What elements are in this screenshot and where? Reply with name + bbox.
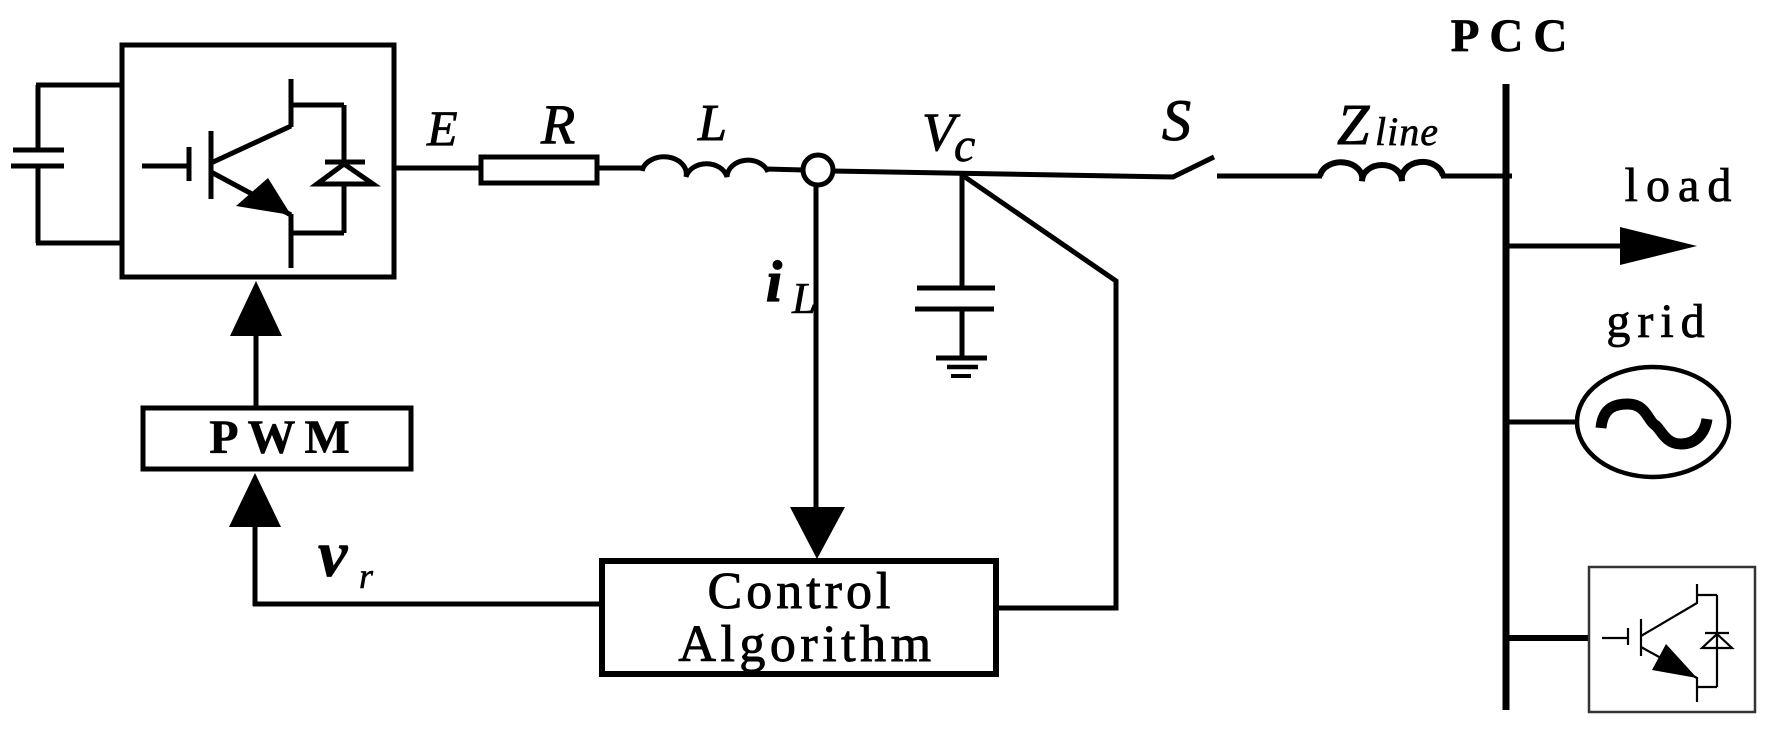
svg-text:Algorithm: Algorithm [678,616,935,673]
control algorithm box [602,561,996,674]
svg-text:S: S [1162,88,1191,153]
wire E [394,166,483,171]
wire DC bus bottom [36,241,122,246]
svg-text:c: c [954,119,975,172]
arrow PWM to inverter [254,335,259,408]
svg-text:PCC: PCC [1451,10,1578,62]
svg-text:grid: grid [1606,295,1711,348]
svg-text:Control: Control [708,563,895,620]
node n1 [803,155,833,185]
transistor Q1 emitter arrow [236,178,291,215]
resistor R [481,157,597,183]
wire feedback Vc to control algorithm [962,175,1116,608]
arrow iL [814,185,819,508]
wire Zline to PCC [1441,174,1512,179]
diode D2 [1702,633,1732,648]
wire L to node [766,169,804,170]
svg-text:L: L [791,274,816,323]
wire switch to Zline [1217,174,1322,179]
svg-text:Z: Z [1337,92,1370,157]
wire R to L [597,166,643,171]
PWM box [143,408,411,469]
inductor Zline [1320,162,1443,181]
transistor Q1 IGBT [142,79,344,268]
capacitor Cdc (DC bus) [11,85,64,243]
svg-text:E: E [426,100,458,156]
ground [936,358,987,376]
inductor L [642,157,768,177]
svg-text:load: load [1625,159,1740,212]
grid source [1577,367,1729,477]
transistor Q2 emitter arrow [1652,644,1697,678]
svg-text:R: R [540,94,575,156]
svg-text:L: L [697,95,727,152]
inverter box U1 [122,45,394,277]
svg-text:i: i [766,249,782,314]
converter box U2 [1589,567,1755,712]
wire vr [253,602,602,607]
capacitor C [915,174,995,358]
diode D1 [317,105,373,233]
arrow vr to PWM [253,526,258,606]
svg-text:line: line [1375,109,1439,154]
switch S [1173,157,1214,177]
svg-text:v: v [318,518,348,591]
wire DC bus top [36,83,122,88]
wire converter branch [1506,635,1590,641]
wire node to switch [832,171,1174,177]
PCC bus [1503,84,1510,710]
svg-text:PWM: PWM [209,411,359,464]
wire grid branch [1506,420,1580,425]
transistor Q2 IGBT [1602,584,1717,702]
svg-text:r: r [359,556,374,596]
load arrow [1507,244,1622,249]
